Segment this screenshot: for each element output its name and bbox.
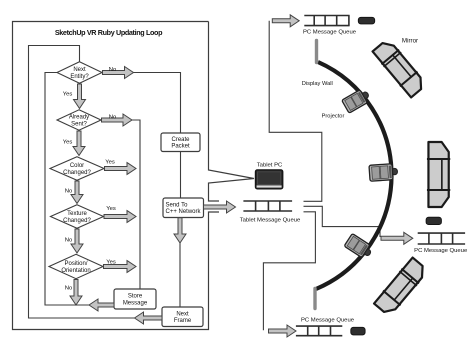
wire: Tablet Message Queue to right PC Message Queue xyxy=(304,206,381,237)
svg-text:No: No xyxy=(109,115,117,121)
svg-text:Changed?: Changed? xyxy=(63,170,91,176)
svg-text:Packet: Packet xyxy=(171,144,190,150)
decision D1 Next Entity? xyxy=(57,62,102,84)
svg-text:Display Wall: Display Wall xyxy=(302,81,333,87)
svg-text:Texture: Texture xyxy=(67,211,87,217)
arrow: Already Sent No right xyxy=(102,114,133,126)
svg-text:Frame: Frame xyxy=(174,318,192,324)
decision D2 Already Sent? xyxy=(57,110,101,130)
flowchart outer border with callout to Tablet PC xyxy=(13,22,255,330)
wire: Next Entity No to Create Packet xyxy=(134,73,181,133)
svg-text:Yes: Yes xyxy=(105,160,115,166)
arrow into top PC Message Queue xyxy=(272,15,299,27)
svg-text:No: No xyxy=(65,189,73,195)
arrow: Color Changed Yes right xyxy=(105,163,137,175)
arrow: Already Sent Yes down to Color Changed xyxy=(73,131,85,156)
svg-text:Position/: Position/ xyxy=(64,261,87,267)
svg-text:Orientation: Orientation xyxy=(61,268,90,274)
svg-text:Tablet PC: Tablet PC xyxy=(257,163,283,169)
svg-text:Send To: Send To xyxy=(166,202,189,208)
arrow into right PC Message Queue xyxy=(381,232,413,244)
arrow: Position/Orientation No down to return line xyxy=(70,280,82,306)
svg-text:Tablet Message Queue: Tablet Message Queue xyxy=(240,218,301,224)
projector P1 (top) xyxy=(342,87,372,113)
message packet (right queue) xyxy=(426,217,441,224)
process box Next Frame xyxy=(162,307,203,327)
wire: Next Frame loop back to Next Entity top xyxy=(29,46,135,319)
svg-text:PC Message Queue: PC Message Queue xyxy=(414,248,468,254)
svg-text:Yes: Yes xyxy=(63,140,73,146)
Tablet Message Queue ladder xyxy=(243,201,292,211)
svg-text:Store: Store xyxy=(128,294,143,300)
arrow into bottom PC Message Queue xyxy=(269,325,297,337)
wire: collector line down to Store Message xyxy=(132,120,140,289)
display wall curved screen xyxy=(316,62,392,289)
svg-text:Color: Color xyxy=(70,163,84,169)
message packet (top queue) xyxy=(358,17,374,24)
decision D5 Position/Orientation xyxy=(49,254,103,278)
process box Create Packet xyxy=(161,133,200,152)
svg-text:Next: Next xyxy=(73,67,86,73)
svg-text:Yes: Yes xyxy=(106,206,116,212)
svg-text:PC Message Queue: PC Message Queue xyxy=(303,30,357,36)
svg-text:Yes: Yes xyxy=(63,92,73,98)
display wall bottom end cap xyxy=(313,289,316,309)
bottom PC Message Queue ladder xyxy=(296,326,342,336)
process box Store Message xyxy=(114,289,156,309)
arrow: Color Changed No down to Texture Changed xyxy=(71,181,83,204)
projector P3 (bottom) xyxy=(344,233,374,260)
process box Send To C++ Network xyxy=(163,198,204,218)
arrow: Send To C++ Network down xyxy=(174,218,186,243)
wire: Create Packet to Send To C++ Network xyxy=(180,152,182,198)
svg-text:Already: Already xyxy=(69,115,89,121)
message packet (bottom queue) xyxy=(351,327,365,335)
decision D4 Texture Changed? xyxy=(51,205,104,229)
decision D3 Color Changed? xyxy=(50,157,104,181)
svg-text:PC Message Queue: PC Message Queue xyxy=(301,317,355,323)
arrow: Texture Changed No down to Position/Orientation xyxy=(71,229,83,253)
arrow: Next Frame left to loop xyxy=(135,312,163,324)
svg-text:C++ Network: C++ Network xyxy=(166,209,202,215)
arrow: Next Entity No right xyxy=(103,67,134,79)
svg-text:No: No xyxy=(65,238,73,244)
svg-text:Yes: Yes xyxy=(106,260,116,266)
svg-text:No: No xyxy=(65,286,73,292)
svg-text:Projector: Projector xyxy=(322,114,345,120)
svg-text:Changed?: Changed? xyxy=(63,218,91,224)
arrow: Texture Changed Yes right xyxy=(104,211,136,223)
Tablet PC device xyxy=(255,170,283,189)
svg-text:Entity?: Entity? xyxy=(70,74,89,80)
mirror (top right, rotated screen) xyxy=(371,38,427,99)
screen assembly (bottom right, rotated) xyxy=(373,257,429,318)
right PC Message Queue ladder xyxy=(418,233,465,244)
wire: Store Message loop back to Next Entity left xyxy=(45,73,89,306)
screen assembly (right edge) xyxy=(427,142,450,207)
svg-text:Next: Next xyxy=(176,311,189,317)
svg-text:Mirror: Mirror xyxy=(402,38,418,45)
wire: Tablet Message Queue to top PC Message Queue xyxy=(269,21,322,202)
projector P2 (right) xyxy=(369,163,398,181)
arrow: Store Message left to loop xyxy=(89,299,114,311)
display wall top end cap xyxy=(315,41,318,63)
arrow: Send To C++ Network right to Tablet Message Queue xyxy=(204,201,236,213)
svg-text:Sent?: Sent? xyxy=(71,121,87,127)
wire: Tablet Message Queue to bottom PC Message Queue xyxy=(263,212,315,330)
arrow: Next Entity Yes down to Already Sent xyxy=(74,84,86,109)
top PC Message Queue ladder xyxy=(304,16,349,26)
svg-text:SketchUp VR Ruby Updating Loop: SketchUp VR Ruby Updating Loop xyxy=(55,28,163,37)
wire: Send To C++ Network down to Next Frame xyxy=(179,243,181,307)
svg-text:Message: Message xyxy=(123,300,148,306)
svg-text:Create: Create xyxy=(171,137,190,143)
arrow: Position/Orientation Yes right xyxy=(104,261,137,273)
svg-text:No: No xyxy=(109,67,117,73)
